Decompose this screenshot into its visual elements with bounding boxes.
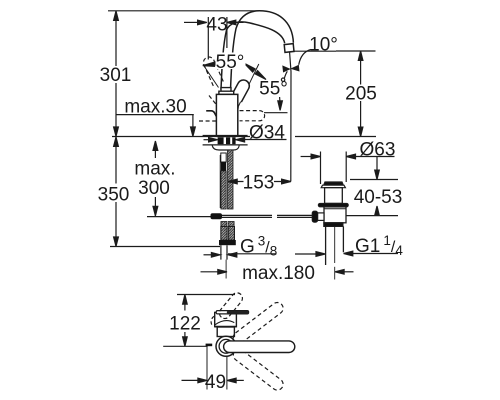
pivot circle outer — [216, 336, 236, 356]
dashed raised lever (front view) — [219, 293, 242, 319]
line from dashed lever end to outlet line — [264, 112, 288, 114]
svg-text:43: 43 — [206, 15, 227, 36]
10 deg underline — [295, 50, 337, 52]
43 extension lines — [208, 17, 227, 60]
svg-text:300: 300 — [138, 178, 170, 199]
lever B solid (raised position) — [231, 80, 249, 102]
tailpipe — [326, 226, 344, 265]
hook clip on left of body — [206, 111, 217, 119]
aerator tip block — [284, 44, 294, 53]
spout inner curve — [221, 22, 285, 90]
pivot circle inner — [219, 339, 233, 353]
front body — [215, 312, 237, 326]
arrowhead 301 up — [114, 11, 119, 20]
dark nut — [219, 240, 236, 245]
55deg crossing arrowheads — [244, 63, 255, 72]
dashed lever pill up — [233, 303, 283, 344]
rod knob — [211, 213, 223, 219]
arc inside body — [215, 321, 234, 325]
solid lever pill — [224, 341, 295, 353]
arrowhead 301 down — [114, 127, 119, 136]
svg-text:153: 153 — [243, 173, 275, 194]
svg-text:350: 350 — [98, 185, 130, 206]
body bottom thick edge — [215, 326, 236, 328]
122 dimension vertical — [184, 295, 186, 347]
dashed lever position C (horizontal) — [240, 111, 265, 121]
10 deg left arrow with curled tail — [281, 78, 284, 81]
hose stubs below pop-up rod — [221, 222, 227, 228]
Ø63 extension lines — [321, 152, 347, 185]
drain bottom nut — [324, 223, 343, 227]
arrowhead 350 down — [114, 237, 119, 246]
lever bar (front view) — [216, 311, 248, 314]
arrowhead 350 up — [114, 137, 119, 146]
svg-text:55°: 55° — [216, 52, 245, 73]
svg-text:301: 301 — [100, 65, 132, 86]
flange top plate line — [203, 135, 248, 137]
dashed fragment below lever A — [209, 96, 216, 105]
122 bottom reference line — [163, 345, 207, 347]
dark mounting block — [218, 137, 236, 144]
svg-text:10°: 10° — [309, 34, 338, 55]
svg-text:Ø34: Ø34 — [249, 122, 285, 143]
collar lower tier — [219, 91, 234, 94]
svg-text:49: 49 — [205, 372, 226, 393]
svg-text:122: 122 — [169, 314, 201, 335]
small dashed arc left of body — [211, 316, 215, 325]
122 top reference line — [177, 294, 235, 296]
lever bar dark segment — [227, 311, 249, 314]
side port — [318, 213, 324, 221]
svg-text:max.30: max.30 — [124, 97, 186, 118]
tailpipe centerline — [334, 227, 336, 264]
svg-text:max.: max. — [134, 159, 175, 180]
left hose edge line — [219, 155, 221, 208]
drain body — [324, 207, 346, 223]
max.30 right drop arrow — [192, 115, 194, 128]
small solid tick — [206, 344, 213, 347]
side port knob (dark) — [312, 211, 317, 222]
shank dome below deck — [212, 146, 239, 151]
faucet centerline below — [225, 260, 227, 279]
left hose fitting dark segment — [221, 162, 226, 171]
flange bottom line — [203, 144, 248, 146]
svg-text:Ø63: Ø63 — [360, 140, 396, 161]
lever B axis start at body — [237, 107, 239, 109]
plug flare — [321, 185, 345, 188]
svg-text:40-53: 40-53 — [354, 187, 403, 208]
collar upper tier — [221, 88, 231, 92]
dashed lever pill down — [233, 349, 283, 390]
stream line from outlet (10 deg then vertical) — [290, 53, 291, 182]
spout outer curve — [231, 11, 294, 90]
body rectangle — [216, 94, 237, 136]
drain flange ring (dark) — [318, 203, 348, 207]
dashed lever position A (up-left) — [203, 57, 223, 86]
drain plug cap (dark) — [324, 182, 344, 185]
svg-text:55°: 55° — [259, 79, 288, 100]
G3/8 nipple — [221, 245, 227, 259]
front stem — [217, 327, 234, 337]
dashed line through body left (lever C bottom edge) — [199, 120, 216, 122]
Ø63 dimension arrows — [301, 156, 313, 158]
rod reference line (max.300 bottom) — [147, 216, 211, 218]
svg-text:205: 205 — [345, 84, 377, 105]
label 55 deg 1 — [216, 53, 246, 70]
55deg lever axis line (right) — [238, 64, 258, 107]
svg-text:max.180: max.180 — [242, 263, 315, 284]
plug body — [325, 188, 343, 204]
